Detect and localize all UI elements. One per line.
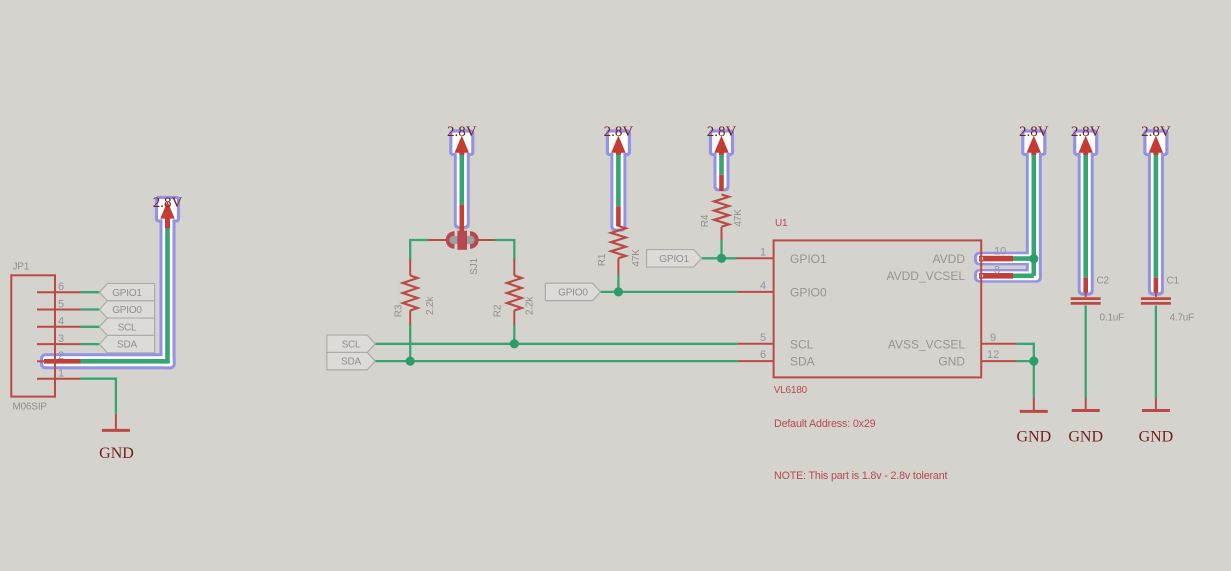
capacitor C2 pin top bbox=[1085, 292, 1087, 297]
flag SDA (bus left) bbox=[327, 352, 375, 370]
pin core R4 top pin bbox=[719, 175, 724, 191]
svg-text:GND: GND bbox=[99, 445, 134, 462]
supply arrow SJ1 2.8V bbox=[455, 136, 469, 155]
wire GND net down bbox=[1033, 361, 1035, 398]
svg-text:GPIO1: GPIO1 bbox=[659, 254, 689, 265]
flag GPIO1 (JP1 pin6) bbox=[99, 283, 154, 301]
svg-text:NOTE: This part is 1.8v - 2.8v: NOTE: This part is 1.8v - 2.8v tolerant bbox=[774, 470, 948, 482]
flag GPIO0 (U1) bbox=[545, 283, 600, 301]
svg-text:9: 9 bbox=[990, 332, 996, 344]
svg-text:GPIO0: GPIO0 bbox=[558, 288, 588, 299]
pin highlight outline U1 pin8 bbox=[974, 269, 1036, 283]
solder jumper SJ1 left half-disc bbox=[446, 231, 455, 249]
wire white inner R4 bbox=[717, 143, 727, 189]
pin U1 5 SCL bbox=[738, 343, 774, 345]
pin JP1 6 bbox=[37, 291, 81, 293]
svg-text:Default Address: 0x29: Default Address: 0x29 bbox=[774, 418, 876, 430]
pin U1 9 AVSS_VCSEL bbox=[981, 343, 1016, 345]
pin highlight white U1 pin10 bbox=[977, 254, 1039, 263]
flag GPIO0 (JP1 pin5) bbox=[99, 301, 154, 319]
wire JP1 pin6 to GPIO1 flag bbox=[81, 291, 100, 293]
flag SCL (JP1 pin4) bbox=[99, 318, 154, 336]
svg-text:GPIO0: GPIO0 bbox=[790, 285, 827, 299]
junction SDA / R3 bbox=[406, 357, 415, 366]
svg-text:U1: U1 bbox=[775, 218, 788, 229]
wire JP1 pin4 to SCL flag bbox=[81, 326, 100, 328]
pin R2 bottom bbox=[513, 311, 515, 325]
solder jumper SJ1 center bar bbox=[457, 231, 467, 250]
wire AVSS_VCSEL pin9 to GND net bbox=[1017, 344, 1034, 361]
svg-text:10: 10 bbox=[994, 246, 1006, 258]
svg-text:GND: GND bbox=[938, 355, 965, 369]
pin JP1 4 bbox=[37, 326, 81, 328]
connector JP1 body bbox=[11, 275, 55, 396]
junction GPIO1 / R4 bbox=[717, 254, 726, 263]
supply arrow C2 2.8V bbox=[1078, 136, 1092, 155]
pin U1 1 GPIO1 bbox=[737, 257, 774, 259]
svg-text:2.8V: 2.8V bbox=[707, 124, 737, 140]
svg-text:R2: R2 bbox=[493, 304, 504, 317]
svg-text:2: 2 bbox=[58, 350, 64, 362]
IC U1 body bbox=[774, 240, 982, 377]
pin core U1 AVDD_VCSEL pin 8 bbox=[979, 273, 1013, 279]
ground symbol U1 bbox=[1033, 398, 1035, 410]
svg-text:M06SIP: M06SIP bbox=[13, 402, 48, 413]
svg-text:AVSS_VCSEL: AVSS_VCSEL bbox=[888, 337, 965, 351]
svg-text:SDA: SDA bbox=[117, 340, 137, 351]
junction on AVDD net bbox=[1029, 254, 1038, 263]
pin core C1 top pin bbox=[1154, 278, 1159, 293]
svg-text:4.7uF: 4.7uF bbox=[1170, 313, 1195, 324]
svg-text:VL6180: VL6180 bbox=[774, 385, 808, 396]
svg-text:2.8V: 2.8V bbox=[1019, 124, 1049, 140]
svg-text:SDA: SDA bbox=[341, 357, 361, 368]
svg-text:SCL: SCL bbox=[118, 322, 137, 333]
wire green core R4 bbox=[719, 153, 724, 175]
supply arrow C1 2.8V bbox=[1149, 136, 1163, 155]
pin end dot U1 pin10 bbox=[980, 257, 983, 260]
pin core JP1 pin2 bbox=[44, 359, 81, 364]
wire R1 bottom to GPIO0 bbox=[617, 275, 619, 292]
wire white inner JP1 pin2 bbox=[43, 356, 173, 366]
supply arrow box P2 (SJ1) bbox=[451, 131, 473, 155]
svg-text:C2: C2 bbox=[1097, 276, 1110, 287]
wire white inner C1 bbox=[1151, 143, 1161, 293]
wire R4 bottom to GPIO1 bbox=[720, 240, 722, 259]
pin R3 bottom bbox=[409, 311, 411, 325]
wire 2.8V net JP1 pin2 run outline bbox=[40, 353, 176, 369]
wire JP1 pin1 to ground bbox=[81, 379, 116, 414]
pin highlight white U1 pin8 bbox=[977, 271, 1039, 280]
wire 2.8V net C1 column outline bbox=[1148, 140, 1164, 296]
svg-text:SDA: SDA bbox=[790, 355, 815, 369]
svg-text:R4: R4 bbox=[700, 214, 711, 227]
svg-text:SCL: SCL bbox=[790, 337, 814, 351]
wire JP1 pin3 to SDA flag bbox=[81, 343, 100, 345]
svg-text:1: 1 bbox=[58, 368, 64, 380]
flag SCL (bus left) bbox=[327, 335, 375, 353]
wire white inner C2 bbox=[1081, 143, 1091, 293]
wire SDA bus bbox=[375, 360, 738, 362]
pin U1 6 SDA bbox=[738, 360, 774, 362]
pin R1 bottom bbox=[617, 258, 619, 275]
pin SJ1 left bbox=[429, 239, 450, 241]
wire R2 bottom to SCL bbox=[513, 324, 515, 343]
pin JP1 1 bbox=[37, 378, 81, 380]
wire R3 bottom to SDA bbox=[409, 324, 411, 361]
pin SJ1 right bbox=[475, 239, 495, 241]
ground symbol JP1 bbox=[115, 414, 117, 429]
supply arrow JP1 2.8V bbox=[160, 201, 174, 228]
solder jumper SJ1 right half-disc bbox=[470, 231, 479, 249]
wire white inner R1 bbox=[613, 143, 623, 229]
svg-text:6: 6 bbox=[760, 349, 766, 361]
svg-text:2.2k: 2.2k bbox=[525, 296, 536, 315]
wire white inner AVDD column bbox=[1029, 143, 1039, 280]
pin R3 top bbox=[409, 259, 411, 276]
wire green core AVDD tree bbox=[1012, 153, 1034, 276]
junction GND net pins 9/12 bbox=[1029, 357, 1038, 366]
svg-text:4: 4 bbox=[760, 280, 766, 292]
svg-text:JP1: JP1 bbox=[13, 262, 30, 273]
svg-text:AVDD: AVDD bbox=[933, 252, 966, 266]
pin core R1 top pin bbox=[616, 206, 621, 226]
ground symbol C1 bbox=[1155, 398, 1157, 409]
wire green core C2 bbox=[1083, 153, 1088, 278]
wire GPIO0 net bbox=[600, 291, 738, 293]
pin R4 bottom bbox=[721, 227, 723, 240]
svg-text:47K: 47K bbox=[733, 209, 744, 227]
pin end dot U1 pin8 bbox=[980, 274, 983, 277]
pin JP1 3 bbox=[37, 343, 81, 345]
resistor R3 zigzag bbox=[403, 276, 418, 311]
svg-text:3: 3 bbox=[58, 333, 64, 345]
wire 2.8V net C2 column outline bbox=[1078, 140, 1094, 296]
wire JP1 pin5 to GPIO0 flag bbox=[81, 308, 100, 310]
resistor R2 zigzag bbox=[507, 276, 522, 311]
junction GPIO0 / R1 bbox=[614, 287, 623, 296]
svg-text:4: 4 bbox=[58, 316, 64, 328]
svg-text:AVDD_VCSEL: AVDD_VCSEL bbox=[887, 269, 966, 283]
svg-text:2.2k: 2.2k bbox=[425, 296, 436, 315]
wire 2.8V net SJ1 column outline bbox=[454, 140, 470, 229]
supply arrow box P5 (AVDD) bbox=[1023, 131, 1045, 155]
pin U1 12 GND bbox=[981, 360, 1016, 362]
wire SJ1 right to R2 bbox=[495, 240, 514, 260]
svg-text:SJ1: SJ1 bbox=[469, 258, 480, 275]
svg-text:5: 5 bbox=[58, 298, 64, 310]
svg-text:GND: GND bbox=[1139, 429, 1174, 446]
svg-text:0.1uF: 0.1uF bbox=[1100, 313, 1125, 324]
wire SCL bus bbox=[375, 343, 738, 345]
flag GPIO1 (U1) bbox=[647, 250, 702, 267]
supply arrow box P6 (C2) bbox=[1075, 131, 1097, 155]
wire GPIO1 net bbox=[702, 257, 737, 259]
svg-text:GND: GND bbox=[1068, 429, 1103, 446]
supply arrow AVDD 2.8V bbox=[1027, 136, 1041, 155]
wire green core SJ1 bbox=[459, 153, 464, 205]
capacitor C1 pin top bbox=[1155, 292, 1157, 297]
wire green core R1 bbox=[616, 153, 621, 206]
pin core SJ1 top pin bbox=[459, 205, 464, 232]
svg-text:GPIO0: GPIO0 bbox=[112, 305, 142, 316]
wire 2.8V net AVDD column outline bbox=[1026, 140, 1042, 283]
pin U1 4 GPIO0 bbox=[738, 291, 774, 293]
pin JP1 5 bbox=[37, 309, 81, 311]
svg-text:47K: 47K bbox=[631, 249, 642, 267]
svg-text:2.8V: 2.8V bbox=[1141, 124, 1171, 140]
svg-text:2.8V: 2.8V bbox=[153, 195, 183, 211]
svg-text:2.8V: 2.8V bbox=[447, 124, 477, 140]
capacitor C2 plates bbox=[1071, 299, 1101, 304]
supply arrow box P3 (R1) bbox=[607, 131, 629, 155]
pin core C2 top pin bbox=[1083, 278, 1088, 293]
svg-text:GPIO1: GPIO1 bbox=[790, 252, 827, 266]
wire C2 bottom to ground bbox=[1085, 306, 1087, 399]
svg-text:12: 12 bbox=[987, 349, 999, 361]
wire pin12 to GND net bbox=[1017, 360, 1034, 362]
wire green core C1 bbox=[1154, 153, 1159, 278]
solder jumper SJ1 pads bbox=[449, 236, 474, 244]
wire SJ1 left to R3 bbox=[410, 240, 428, 260]
svg-text:5: 5 bbox=[760, 332, 766, 344]
svg-text:2.8V: 2.8V bbox=[1071, 124, 1101, 140]
svg-text:1: 1 bbox=[760, 246, 766, 258]
svg-text:8: 8 bbox=[994, 265, 1000, 277]
svg-text:2.8V: 2.8V bbox=[604, 124, 634, 140]
wire 2.8V net R1 column outline bbox=[610, 140, 626, 232]
svg-text:R1: R1 bbox=[597, 253, 608, 266]
capacitor C1 plates bbox=[1141, 299, 1171, 304]
wire C1 bottom to ground bbox=[1155, 306, 1157, 399]
supply arrow box P4 (R4) bbox=[711, 131, 733, 155]
svg-text:GND: GND bbox=[1016, 429, 1051, 446]
junction SCL / R2 bbox=[510, 339, 519, 348]
supply arrow box P1 (JP1) bbox=[157, 198, 179, 222]
resistor R4 zigzag bbox=[714, 195, 729, 227]
pin core U1 AVDD pin 10 bbox=[979, 256, 1013, 262]
pin JP1 2 bbox=[37, 360, 46, 362]
pin R2 top bbox=[513, 259, 515, 276]
resistor R1 zigzag bbox=[611, 226, 626, 258]
pin highlight outline U1 pin10 bbox=[974, 252, 1036, 266]
ground symbol C2 bbox=[1085, 398, 1087, 409]
wire 2.8V net R4 column outline bbox=[714, 140, 730, 191]
flag SDA (JP1 pin3) bbox=[99, 335, 154, 353]
wire green core JP1 pin2 bbox=[81, 228, 168, 361]
wire white inner SJ1 bbox=[457, 143, 467, 226]
svg-text:SCL: SCL bbox=[342, 339, 361, 350]
svg-text:6: 6 bbox=[58, 281, 64, 293]
supply arrow R1 2.8V bbox=[611, 136, 625, 155]
supply arrow R4 2.8V bbox=[714, 136, 728, 155]
svg-text:C1: C1 bbox=[1167, 276, 1180, 287]
svg-text:GPIO1: GPIO1 bbox=[112, 288, 142, 299]
svg-text:R3: R3 bbox=[394, 304, 405, 317]
supply arrow box P7 (C1) bbox=[1145, 131, 1167, 155]
